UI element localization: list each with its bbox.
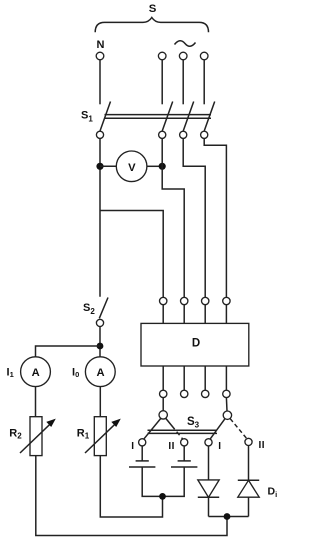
D output terminal 2 [181,390,188,397]
wire L3 down and jog right [204,138,226,297]
wire N terminal to S1 [99,60,101,105]
switch S1 coupling bar [105,114,212,116]
stub D output 4 [225,366,227,390]
diode common wire [209,516,249,518]
S1 lower contact L1 [159,131,166,138]
net S brace [95,18,208,33]
svg-text:R2: R2 [9,427,22,440]
ammeter A (I0) [85,357,115,387]
S3 right position I contact [205,439,212,446]
wire R2 to bottom rail [36,456,227,536]
switch S1 blade pole N [100,102,111,132]
terminal L3 top [200,52,208,60]
svg-text:Di: Di [268,486,278,500]
wire voltmeter left lead [100,165,116,167]
svg-text:I1: I1 [7,366,14,378]
capacitor C1 bottom plate [129,466,155,468]
terminal L1 top [158,52,166,60]
junction dot ammeters [97,343,104,350]
capacitor C2 top plate [178,460,191,462]
wire L1 terminal to S1 [161,60,163,105]
switch S2 blade [99,298,108,319]
D output terminal 1 [160,390,167,397]
junction dot N voltmeter [96,163,103,170]
switch S1 blade pole L1 [162,102,173,132]
capacitor C2 bottom plate [171,466,197,468]
wire L2 terminal to S1 [182,60,184,105]
resistor R1 arrow [85,421,118,453]
diode 2 (cathode up) [238,479,259,481]
D output terminal 4 [223,390,230,397]
S3 right position II contact [245,438,252,445]
svg-text:II: II [259,440,266,451]
wire ammeter I0 to R1 [99,387,101,417]
S3 left common contact [159,411,167,419]
AC tilde symbol [175,41,196,47]
wire diode 2 to common [248,497,250,516]
switch S1 blade pole L2 [183,102,194,132]
D input terminal 2 [181,297,188,304]
wire S2 to junction [99,327,101,357]
D input terminal 4 [223,297,230,304]
svg-text:R1: R1 [77,427,90,440]
wire position II to capacitor C2 [183,446,185,461]
wire L2 down and jog right [183,138,205,297]
stub D input 3 [204,305,206,324]
S3 right dashed blade to position II [230,419,247,439]
device D box [141,323,249,366]
svg-text:A: A [96,367,104,379]
S2 lower contact [96,319,103,326]
svg-text:S2: S2 [83,302,95,316]
svg-text:I: I [131,441,134,452]
resistor R2 body [30,417,42,456]
wire L1 down and jog right [162,138,184,297]
wire to ammeter I1 [36,346,101,357]
wire N below S1 [99,138,101,296]
D output terminal 3 [202,390,209,397]
wire S3 right position I to diode 1 [208,446,210,480]
S1 lower contact N [96,131,103,138]
S3 right common contact [223,411,231,419]
S3 left position I contact [139,439,146,446]
svg-text:D: D [192,338,200,350]
S3 left dashed blade to position II [166,418,183,438]
svg-text:II: II [168,441,175,452]
wire C1 to junction [142,467,184,496]
junction dot diodes [224,513,231,520]
capacitor C1 top plate [136,460,149,462]
wire D out4 to S3 right common [225,398,228,411]
S3 right blade to position I [210,419,225,439]
svg-text:I0: I0 [72,366,79,378]
svg-text:N: N [97,39,105,51]
S3 coupling bar [148,429,218,431]
S3 left blade to position I [144,418,161,438]
wire N branch to D input 1 [100,211,163,298]
stub D input 1 [162,305,164,324]
junction dot capacitors [159,493,166,500]
wire ammeter I1 to R2 [35,387,37,417]
stub D input 2 [183,305,185,324]
S1 lower contact L3 [201,131,208,138]
wire position I to capacitor C1 [141,446,143,461]
wire diode 1 to common [208,497,210,516]
D input terminal 1 [160,297,167,304]
switch S1 blade pole L3 [204,102,215,132]
D input terminal 3 [202,297,209,304]
svg-text:S1: S1 [81,110,93,124]
resistor R1 body [94,417,106,456]
stub D output 1 [162,366,164,390]
wire R1 to capacitor junction [100,456,162,517]
svg-text:S: S [149,3,157,15]
S3 left position II contact [181,439,188,446]
wire L3 terminal to S1 [203,60,205,105]
terminal L2 top [179,52,187,60]
stub D input 4 [225,305,227,324]
svg-text:V: V [128,162,136,174]
stub D output 2 [183,366,185,390]
voltmeter V [116,151,147,182]
svg-text:A: A [32,367,40,379]
S1 lower contact L2 [180,131,187,138]
wire S3 right position II to diode 2 [248,446,250,481]
ammeter A (I1) [21,357,51,387]
junction dot L1 voltmeter [159,163,166,170]
terminal N top [96,52,104,60]
diode 1 (cathode down) [198,480,219,497]
svg-text:I: I [218,441,221,452]
svg-text:S3: S3 [187,416,200,430]
stub D output 3 [204,366,206,390]
resistor R2 arrow [20,421,53,453]
wire D out1 to S3 left common [162,398,164,411]
wire voltmeter right lead [147,165,162,167]
